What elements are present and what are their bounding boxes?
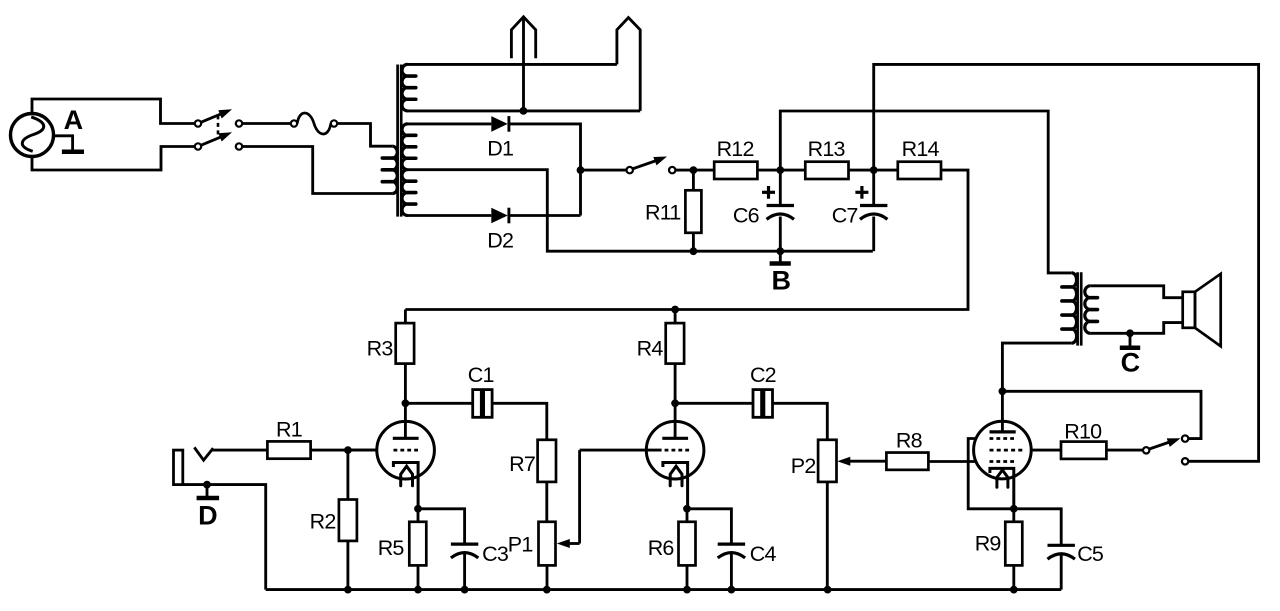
wire heater top [408, 63, 617, 66]
wire D2 to node [509, 214, 581, 217]
node rail R5 [414, 586, 422, 594]
node tube3 cathode [1010, 505, 1018, 513]
wire R11 bottom lead [692, 233, 695, 251]
fuse right terminal [331, 120, 337, 126]
speaker C [1183, 274, 1221, 346]
tube V3 grid g3 [968, 439, 1014, 509]
fuse left terminal [291, 120, 297, 126]
switch S1 dashed link [217, 115, 220, 138]
wire R9 bottom lead [1012, 565, 1015, 589]
capacitor C2 [753, 390, 773, 418]
svg-text:R12: R12 [717, 137, 754, 161]
wire T2 primary bottom [1002, 343, 1071, 391]
wire T2 secondary top [1090, 286, 1182, 298]
node rail P2 [824, 586, 832, 594]
wire C6 top lead [779, 170, 782, 205]
wire mains upper [32, 99, 195, 124]
wire plate node to C1 [405, 402, 472, 405]
transformer T1 primary winding [382, 146, 397, 193]
switch S1 lower pole [195, 143, 201, 149]
wire contact to fuse [242, 122, 291, 125]
node jack ground [203, 481, 211, 489]
resistor R12 [714, 162, 757, 179]
resistor R8 [886, 453, 928, 470]
tube V2 grid [580, 449, 690, 452]
switch S1 lower contact [236, 143, 242, 149]
fuse element [297, 113, 331, 134]
label C6 [733, 204, 760, 228]
potentiometer P2 [818, 440, 836, 482]
node tube2 plate [671, 399, 679, 407]
wire R11 top lead [692, 170, 695, 190]
node rail C3 [461, 586, 469, 594]
wire R5 top lead [417, 509, 420, 522]
switch S3 arm [1149, 438, 1181, 449]
tube V3 cathode [990, 468, 1014, 508]
node rectifier output [577, 166, 585, 174]
potentiometer P1 [539, 522, 556, 566]
diode D2 [491, 208, 509, 224]
wire cathode to C4 [687, 509, 731, 544]
svg-text:R14: R14 [902, 137, 940, 161]
switch S2 contact [669, 167, 675, 173]
wire HV bottom to D2 [408, 214, 492, 217]
capacitor C3 [451, 544, 478, 558]
svg-text:R1: R1 [276, 418, 302, 442]
svg-text:C3: C3 [482, 542, 509, 566]
wire jack to R1 [212, 449, 268, 452]
tube V1 heater [401, 466, 413, 486]
label R2 [310, 510, 336, 534]
node B ground [776, 247, 784, 255]
wire R6 top lead [686, 509, 689, 522]
wire node to switch [581, 169, 627, 172]
label R3 [367, 337, 394, 361]
wire jack sleeve [183, 485, 266, 590]
label R7 [509, 452, 535, 476]
wire C7 bottom lead [872, 217, 875, 252]
wire R4 top lead [674, 310, 677, 324]
node tube3 plate [999, 387, 1007, 395]
wire C1 to R7 [492, 403, 547, 440]
label R14 [902, 137, 940, 161]
node rail P1 [543, 586, 551, 594]
svg-text:C1: C1 [468, 363, 494, 387]
label C2 [750, 363, 776, 387]
svg-text:P2: P2 [791, 454, 816, 478]
wire R6 bottom lead [686, 565, 689, 589]
tube V1 cathode [393, 463, 418, 509]
label R10 [1064, 420, 1102, 444]
label A [64, 105, 84, 135]
svg-text:R13: R13 [808, 137, 846, 161]
input jack body [174, 450, 183, 485]
svg-text:P1: P1 [508, 533, 533, 557]
wire B+ to output transformer [780, 111, 1072, 273]
tube V3 grid g1 [990, 460, 1015, 463]
svg-text:R7: R7 [509, 452, 535, 476]
wire C4 bottom lead [730, 553, 733, 590]
svg-text:R10: R10 [1064, 420, 1102, 444]
label P1 [508, 533, 533, 557]
label C [1121, 347, 1141, 377]
label D [198, 500, 218, 530]
wire center tap [408, 170, 873, 252]
resistor R7 [538, 440, 556, 482]
wire R3 top lead [404, 310, 407, 324]
ground at A [53, 136, 84, 152]
svg-text:R11: R11 [645, 201, 680, 225]
wire B+ to triode-pentode switch [874, 64, 1259, 461]
svg-text:R9: R9 [975, 532, 1001, 556]
resistor R6 [679, 522, 696, 566]
tube V2 cathode [663, 463, 688, 509]
switch S3 pole [1143, 447, 1149, 453]
wire P1 bottom lead [546, 565, 549, 589]
wire cathode to C3 [418, 509, 465, 544]
label D2 [487, 228, 513, 252]
wire HV top to D1 [408, 122, 492, 125]
transformer T1 core [398, 65, 402, 217]
wire R2 top lead [346, 450, 349, 499]
switch S1 upper pole [195, 120, 201, 126]
node R4 top [671, 306, 679, 314]
svg-text:R3: R3 [367, 337, 394, 361]
wire tube2 plate lead [674, 403, 677, 438]
ground B [770, 251, 791, 263]
svg-text:C: C [1121, 347, 1141, 377]
node rail R2 [344, 586, 352, 594]
resistor R2 [339, 500, 357, 541]
svg-text:R6: R6 [648, 536, 675, 560]
label R9 [975, 532, 1001, 556]
resistor R5 [409, 522, 426, 566]
resistor R4 [666, 323, 684, 364]
wire upper contact to plate [1002, 391, 1201, 438]
wire cathode to C5 [1014, 509, 1061, 546]
wire D1 to node [509, 124, 581, 216]
node rail R6 [683, 586, 691, 594]
resistor R14 [898, 162, 941, 179]
transformer T2 core [1078, 272, 1082, 345]
label R12 [717, 137, 754, 161]
svg-text:C6: C6 [733, 204, 760, 228]
transformer T1 heater winding [402, 64, 416, 110]
resistor R3 [396, 323, 414, 364]
svg-text:R2: R2 [310, 510, 336, 534]
tube V1 anode [393, 437, 419, 440]
node R11 top [690, 166, 698, 174]
transformer T2 secondary winding [1085, 286, 1098, 334]
node C7 top [870, 166, 878, 174]
C6 plus sign [762, 186, 775, 199]
node rail C4 [728, 586, 736, 594]
tube V1 envelope [377, 421, 435, 479]
tube V3 grid g2 [990, 449, 1062, 452]
svg-text:D: D [198, 500, 218, 530]
label C5 [1077, 542, 1104, 566]
wire tube1 plate lead [404, 403, 407, 438]
P2 wiper [837, 457, 886, 466]
switch S2 arm [633, 157, 668, 169]
wire R3 to plate node [404, 364, 407, 404]
label B [771, 266, 791, 296]
tube V3 anode [990, 391, 1016, 432]
capacitor C7 [860, 206, 887, 220]
wire R13 to node C7 [849, 169, 898, 172]
tube V1 grid [348, 449, 418, 452]
transformer T2 primary winding [1062, 273, 1077, 343]
tube V2 anode [662, 437, 688, 440]
label C1 [468, 363, 494, 387]
wire mains lower [32, 147, 195, 171]
ground D [197, 485, 220, 498]
wire bottom rail [266, 588, 1061, 591]
svg-text:B: B [771, 266, 791, 296]
svg-text:C2: C2 [750, 363, 776, 387]
label R6 [648, 536, 675, 560]
label C3 [482, 542, 509, 566]
capacitor C6 [767, 206, 794, 220]
switch S1 upper contact [236, 120, 242, 126]
switch S3 upper contact [1182, 435, 1188, 441]
svg-text:A: A [64, 105, 84, 135]
wire R10 to switch pole [1106, 449, 1142, 452]
wire C2 to P2 [773, 403, 828, 440]
tube V3 heater [997, 470, 1008, 487]
resistor R11 [685, 190, 701, 233]
wire R7 to P1 [545, 482, 548, 522]
wire fuse to primary [337, 124, 392, 147]
tube V2 heater [670, 466, 682, 486]
AC source A circle [11, 114, 54, 157]
label R13 [808, 137, 846, 161]
ground C [1120, 333, 1140, 347]
capacitor C4 [718, 544, 745, 558]
tube V2 envelope [646, 421, 704, 479]
input jack tip contact [194, 447, 213, 460]
label P2 [791, 454, 816, 478]
node heater junction [520, 107, 528, 115]
wire R14 to preamp rail [405, 170, 968, 309]
diode D1 [491, 116, 509, 132]
label R8 [896, 429, 923, 453]
wire plate node to C2 [675, 402, 753, 405]
label R5 [378, 536, 405, 560]
wire P2 bottom lead [826, 482, 829, 590]
label C4 [750, 542, 777, 566]
wire R5 bottom lead [417, 565, 420, 589]
wire R1 to grid [311, 449, 377, 452]
capacitor C1 [473, 390, 492, 418]
svg-text:R4: R4 [637, 337, 664, 361]
svg-text:R5: R5 [378, 536, 405, 560]
wire T2 secondary bottom [1090, 323, 1182, 334]
C7 plus sign [855, 186, 868, 199]
switch S2 pole [627, 167, 633, 173]
node R11 bottom [690, 247, 698, 255]
node speaker ground [1126, 329, 1134, 337]
node R1 R2 grid [344, 446, 352, 454]
wire C7 top lead [872, 170, 875, 205]
wire heater return [408, 109, 641, 112]
node C6 top [776, 166, 784, 174]
wire R9 top lead [1012, 509, 1015, 522]
resistor R1 [267, 441, 310, 458]
svg-text:D1: D1 [487, 137, 513, 161]
wire lower to primary [242, 147, 392, 194]
node tube2 cathode [683, 505, 691, 513]
wire C5 bottom lead [1060, 554, 1063, 590]
wire C6 bottom lead [779, 217, 782, 252]
svg-text:C4: C4 [750, 542, 777, 566]
svg-text:R8: R8 [896, 429, 923, 453]
resistor R9 [1005, 522, 1022, 566]
heater arrow 2 (right) [617, 18, 640, 111]
wire R2 bottom lead [346, 541, 349, 590]
resistor R10 [1061, 442, 1106, 459]
wire switch to R12 [675, 169, 714, 172]
wire R4 to plate node [674, 364, 677, 404]
svg-text:C5: C5 [1077, 542, 1104, 566]
label C7 [832, 204, 858, 228]
tube V3 envelope [974, 421, 1032, 479]
node tube1 cathode [414, 505, 422, 513]
label R1 [276, 418, 302, 442]
svg-text:D2: D2 [487, 228, 513, 252]
switch S1 upper arm [201, 109, 232, 122]
resistor R13 [805, 162, 848, 179]
label R11 [645, 201, 680, 225]
P1 wiper [557, 450, 580, 548]
wire C3 bottom lead [463, 553, 466, 590]
capacitor C5 [1048, 545, 1075, 559]
label D1 [487, 137, 513, 161]
node rail R9 [1010, 586, 1018, 594]
wire R8 to tube3 grid [928, 460, 976, 463]
svg-text:C7: C7 [832, 204, 858, 228]
switch S3 lower contact [1182, 458, 1188, 464]
wire R12 to node C6 [757, 169, 804, 172]
switch S1 lower arm [201, 132, 232, 145]
transformer T1 HV winding [402, 124, 416, 216]
label R4 [637, 337, 664, 361]
heater arrow 1 (left) [511, 17, 535, 111]
node tube1 plate [402, 399, 410, 407]
